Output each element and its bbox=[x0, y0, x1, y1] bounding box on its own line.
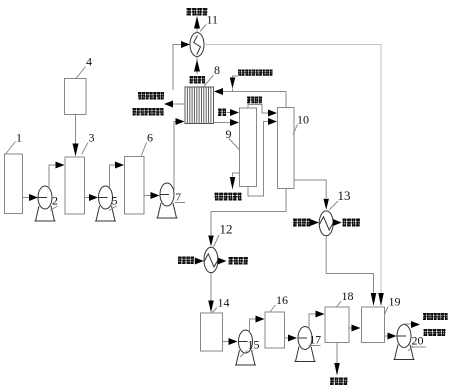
heat exchanger 8 (hatched box) bbox=[185, 87, 214, 124]
leader 5 bbox=[109, 206, 117, 211]
arrow steam down bbox=[230, 78, 236, 89]
arrow into exchanger 8 bottom-left bbox=[176, 118, 185, 125]
svg-text:7: 7 bbox=[176, 192, 182, 204]
wire steam into vessel 9 bbox=[227, 112, 233, 114]
text: xunhuan shui jin (circulating water in) bbox=[293, 219, 310, 227]
wire pump2 to vessel3 bbox=[49, 165, 57, 188]
arrow into exchanger 8 right bbox=[214, 88, 223, 95]
leader 1 bbox=[6, 142, 16, 155]
wire vessel9 top vapor to vessel10 bbox=[248, 105, 270, 114]
wire exchanger8 to vessel9 bbox=[214, 122, 233, 124]
cooler 12 bbox=[204, 247, 218, 272]
leader 20 underline bbox=[411, 346, 426, 348]
wire vessel3 to pump5 bbox=[85, 197, 91, 199]
arrow into pump 2 bbox=[29, 194, 38, 201]
wire cooler12 to vessel14 bbox=[210, 273, 212, 301]
leader 8 bbox=[204, 75, 214, 87]
wire vessel1 to pump2 bbox=[23, 197, 31, 199]
svg-text:2: 2 bbox=[52, 194, 58, 208]
arrow into vessel 3 bbox=[56, 162, 65, 169]
wire vessel9 left-bottom outlet bbox=[233, 173, 240, 177]
wire riser from vessel 10 top bbox=[285, 92, 287, 108]
svg-text:10: 10 bbox=[297, 113, 309, 127]
arrow into vessel 18 bbox=[316, 311, 325, 318]
arrow cooling water into cooler 13 bbox=[310, 219, 319, 226]
arrow into vessel 19 top (left) bbox=[371, 293, 377, 306]
wire pump5 to vessel6 bbox=[110, 165, 117, 188]
svg-text:4: 4 bbox=[86, 55, 92, 69]
text: qu liqing jiaoban xitong (to asphalt mixing system) bbox=[138, 92, 164, 100]
leader 4 bbox=[76, 67, 86, 79]
arrow into pump 5 bbox=[89, 194, 98, 201]
leader 2 bbox=[50, 206, 58, 211]
svg-text:9: 9 bbox=[226, 127, 232, 141]
wire pump17 to vessel18 bbox=[309, 314, 317, 329]
svg-text:8: 8 bbox=[214, 63, 220, 77]
leader 3 bbox=[82, 143, 89, 155]
arrow into vessel 3 top bbox=[73, 144, 79, 157]
svg-text:14: 14 bbox=[218, 296, 230, 310]
text: erci zhengqi (secondary steam) bbox=[247, 97, 262, 104]
cooler 13 bbox=[319, 211, 333, 236]
leader 18 bbox=[337, 301, 342, 307]
wire vessel18 bottom to butanol product bbox=[336, 343, 338, 364]
pump 20 bbox=[394, 325, 415, 360]
wire cooler13 down to vessel 19 bbox=[326, 236, 373, 293]
wire vessel10 right to cooler 13 bbox=[294, 180, 326, 198]
svg-text:12: 12 bbox=[220, 222, 233, 237]
wire condenser11 outlet right and down to vessel 19 bbox=[204, 45, 381, 293]
text: chang dabiao paifang (plant standard discharge) bbox=[424, 329, 446, 336]
leader 15 bbox=[240, 351, 248, 358]
svg-text:19: 19 bbox=[389, 295, 401, 309]
arrow into vessel 6 bbox=[115, 162, 124, 169]
vessel 16 bbox=[265, 312, 285, 348]
leader 17 bbox=[309, 345, 321, 347]
arrow into vessel 19 top (right) bbox=[378, 293, 384, 306]
vessel 3 bbox=[65, 157, 85, 214]
pump 15 bbox=[235, 330, 256, 365]
svg-text:3: 3 bbox=[89, 131, 95, 145]
text: (kaiche jieduan shiyong) (used during start-up) bbox=[133, 108, 164, 116]
svg-text:18: 18 bbox=[342, 289, 354, 303]
wire pump7 riser to exchanger8 bbox=[174, 122, 177, 192]
arrow into condenser 11 bbox=[181, 41, 190, 48]
pump 5 bbox=[95, 186, 116, 221]
arrow to wastewater discharge bbox=[411, 321, 420, 328]
vessel 18 bbox=[325, 307, 349, 343]
arrow cooling water out (up) bbox=[194, 16, 200, 29]
vessel 1 bbox=[5, 154, 23, 214]
arrow into cooler 12 bbox=[208, 236, 214, 247]
arrow steam into vessel 9 bbox=[230, 109, 239, 116]
arrow into vessel 10 upper bbox=[268, 110, 277, 117]
wire vessel6 to pump7 bbox=[144, 195, 152, 197]
svg-text:16: 16 bbox=[276, 293, 288, 307]
arrow into vessel 19 left bbox=[352, 325, 361, 332]
wire condenser11 top stub bbox=[196, 29, 198, 33]
wire vessel18 to vessel19 bbox=[349, 327, 353, 329]
svg-text:17: 17 bbox=[310, 335, 322, 347]
pump 7 bbox=[157, 183, 178, 218]
condenser 11 bbox=[190, 33, 204, 57]
text: xunhuan shui chu (circulating water out) bbox=[229, 257, 248, 265]
text: feishui qu wushui chuli (wastewater to treatment) bbox=[423, 313, 448, 320]
svg-text:1: 1 bbox=[16, 131, 22, 145]
wire vessel14 to pump15 bbox=[223, 341, 231, 343]
vessel 10 bbox=[278, 108, 295, 189]
wire pump15 to vessel16 bbox=[250, 319, 258, 332]
wire pump20 outlet bbox=[404, 323, 412, 326]
arrow into pump 20 bbox=[388, 333, 397, 340]
arrow into vessel 16 bbox=[256, 316, 265, 323]
arrow into cooler 13 bbox=[323, 199, 329, 210]
wire cooler13 right stub bbox=[332, 222, 335, 224]
leader 9 bbox=[229, 139, 240, 151]
svg-text:11: 11 bbox=[207, 13, 219, 27]
vessel 19 bbox=[362, 307, 385, 343]
svg-text:15: 15 bbox=[248, 338, 260, 352]
svg-text:13: 13 bbox=[338, 188, 351, 203]
pump 2 bbox=[35, 186, 56, 221]
vessel 14 bbox=[201, 313, 223, 351]
leader 16 bbox=[270, 305, 276, 312]
arrow cooling water out of cooler 13 bbox=[333, 219, 342, 226]
wire exchanger8 top-left up to condenser 11 bbox=[173, 45, 181, 91]
arrow into pump 15 bbox=[229, 338, 238, 345]
wire vessel4 down to vessel3 bbox=[75, 115, 77, 145]
text: xunhuan shui chu (circulating water out) bbox=[187, 8, 208, 16]
wire steam text leader bbox=[233, 76, 239, 78]
leader 13 bbox=[330, 201, 339, 210]
text: qu wushui chuli xitong (to wastewater treatment system) bbox=[215, 193, 242, 201]
pump 17 bbox=[295, 327, 316, 362]
wire vapor from vessel10 to exchanger8 bbox=[223, 91, 287, 93]
arrow to asphalt mixing system bbox=[164, 101, 173, 108]
wire vessel19 to pump20 bbox=[385, 335, 390, 337]
leader 14 bbox=[212, 308, 218, 314]
vessel 9 outer bbox=[240, 108, 257, 187]
text: xunhuan shui chu (circulating water out) bbox=[343, 219, 360, 227]
text: zhengqi (steam) bbox=[218, 109, 226, 117]
arrow into vessel 14 bbox=[208, 301, 214, 313]
leader 12 bbox=[213, 235, 219, 248]
arrow into pump 7 bbox=[151, 192, 160, 199]
arrow circulating water in (up into condenser) bbox=[194, 60, 200, 72]
wire cooler12 right stub bbox=[218, 260, 219, 262]
wire vessel9 bottom loop to vessel10 bbox=[248, 122, 270, 197]
wire vessel10 bottom to cooler 12 bbox=[211, 189, 286, 236]
leader 6 bbox=[141, 143, 147, 157]
text: xunhuan shui jin (circulating water in) bbox=[190, 76, 206, 84]
arrow into vessel 10 lower bbox=[268, 118, 277, 125]
leader 19 bbox=[385, 307, 389, 315]
arrow down to waste water treatment bbox=[230, 177, 236, 190]
wire exchanger8 left outlet bbox=[173, 103, 186, 105]
svg-text:20: 20 bbox=[412, 334, 424, 348]
vessel 4 bbox=[65, 79, 87, 115]
leader 11 bbox=[200, 25, 206, 32]
leader 7 bbox=[175, 202, 185, 204]
text: zhengqi (kaiche jieduan shiyong) steam used during start-up bbox=[238, 70, 273, 76]
arrow cooling water out of cooler 12 bbox=[218, 258, 227, 265]
wire condenser11 bottom stub bbox=[196, 57, 198, 75]
leader 20 bbox=[408, 346, 413, 351]
arrow into pump 17 bbox=[288, 335, 297, 342]
arrow into vessel 9 lower bbox=[230, 119, 239, 126]
arrow cooling water into cooler 12 bbox=[195, 258, 204, 265]
text: xunhuan shui jin (circulating water in) bbox=[178, 257, 194, 265]
arrow butanol product down bbox=[334, 363, 340, 376]
leader 10 bbox=[293, 125, 298, 135]
text: dingchun chanpin (butanol product) bbox=[330, 378, 347, 386]
vessel 6 bbox=[125, 157, 145, 215]
svg-text:6: 6 bbox=[147, 131, 153, 145]
svg-text:5: 5 bbox=[112, 194, 118, 208]
wire vessel16 to pump17 bbox=[285, 337, 290, 339]
wire steam join bbox=[232, 89, 234, 92]
